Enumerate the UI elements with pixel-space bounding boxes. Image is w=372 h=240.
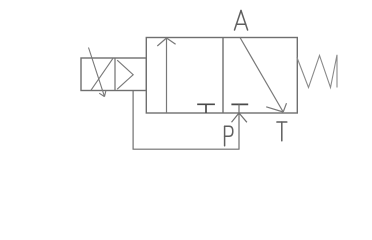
solenoid coil diagonal <box>91 58 113 90</box>
pilot drain line from solenoid to P <box>133 91 239 150</box>
valve body envelope <box>146 38 297 114</box>
blocked port P (right square) <box>231 103 248 105</box>
port label P <box>225 126 233 146</box>
solenoid S1 box <box>81 58 146 91</box>
blocked port T (left square) <box>197 104 215 113</box>
solenoid internal divider <box>114 58 116 91</box>
position divider <box>222 38 224 114</box>
P supply line with arrow <box>232 104 247 149</box>
pilot triangle <box>117 60 133 89</box>
flow path P to A (left square) <box>157 38 175 113</box>
return spring <box>297 55 337 88</box>
port label T <box>277 122 287 141</box>
port label A <box>235 11 248 31</box>
flow path A to T (right square) <box>240 38 287 113</box>
proportional adjustment arrow <box>89 48 106 97</box>
